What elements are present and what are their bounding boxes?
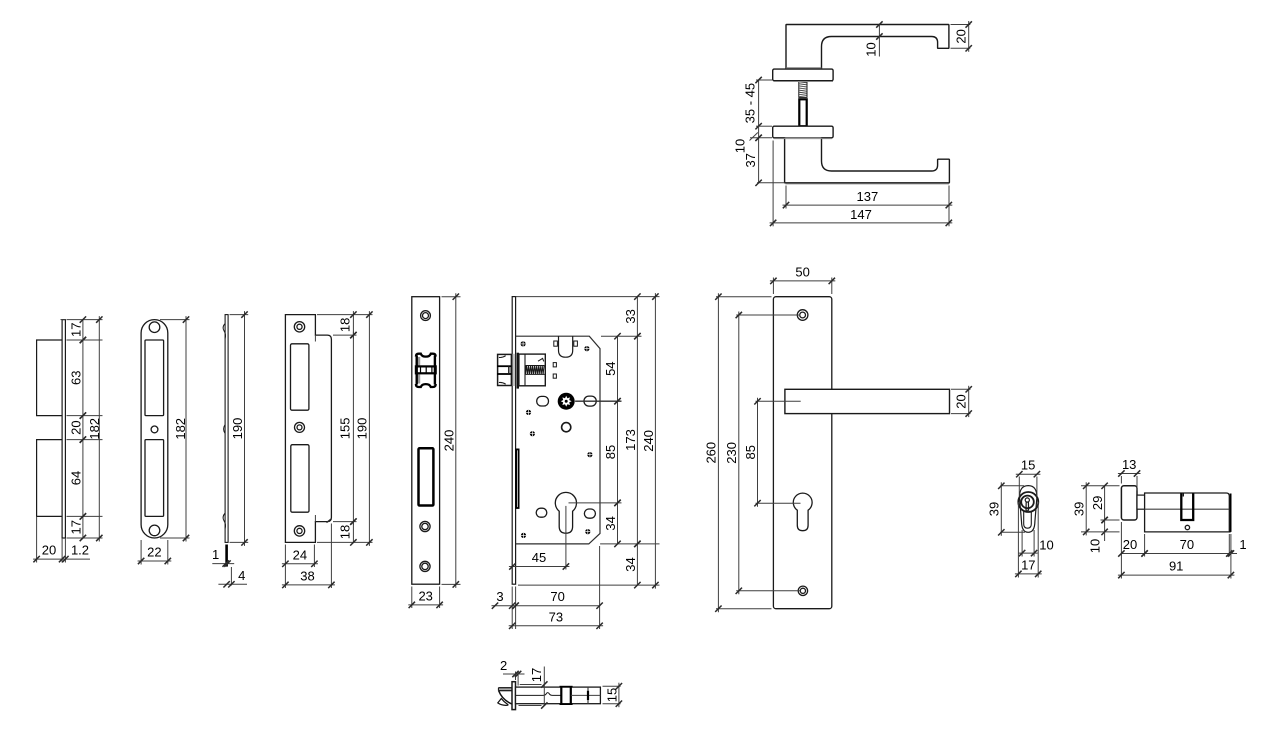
svg-text:260: 260 (703, 442, 718, 464)
svg-text:34: 34 (603, 516, 618, 530)
svg-text:63: 63 (68, 371, 83, 385)
svg-text:20: 20 (954, 394, 969, 408)
svg-text:10: 10 (1088, 539, 1103, 553)
svg-text:20: 20 (954, 29, 969, 43)
svg-text:70: 70 (550, 589, 564, 604)
svg-text:173: 173 (623, 429, 638, 451)
svg-text:50: 50 (795, 264, 809, 279)
svg-text:20: 20 (68, 420, 83, 434)
svg-text:17: 17 (529, 668, 544, 682)
svg-text:18: 18 (338, 318, 353, 332)
svg-text:182: 182 (87, 418, 102, 440)
svg-text:1.2: 1.2 (71, 543, 89, 558)
svg-text:3: 3 (496, 589, 503, 604)
svg-text:35 - 45: 35 - 45 (742, 83, 757, 123)
svg-text:22: 22 (147, 545, 161, 560)
svg-text:34: 34 (623, 557, 638, 571)
svg-text:24: 24 (293, 547, 307, 562)
svg-text:39: 39 (987, 502, 1002, 516)
svg-text:20: 20 (42, 543, 56, 558)
svg-text:155: 155 (338, 418, 353, 440)
svg-text:39: 39 (1071, 502, 1086, 516)
svg-text:15: 15 (1021, 458, 1035, 473)
svg-text:230: 230 (724, 442, 739, 464)
svg-text:85: 85 (743, 445, 758, 459)
svg-text:20: 20 (1123, 537, 1137, 552)
svg-text:240: 240 (441, 430, 456, 452)
svg-text:240: 240 (641, 430, 656, 452)
svg-text:29: 29 (1090, 496, 1105, 510)
svg-text:10: 10 (863, 42, 878, 56)
svg-text:1: 1 (1239, 537, 1246, 552)
svg-text:64: 64 (68, 471, 83, 485)
svg-text:45: 45 (532, 550, 546, 565)
svg-text:73: 73 (549, 609, 563, 624)
svg-text:17: 17 (68, 323, 83, 337)
svg-text:54: 54 (603, 361, 618, 375)
svg-text:10: 10 (733, 139, 748, 153)
svg-text:38: 38 (300, 568, 314, 583)
svg-text:13: 13 (1122, 457, 1136, 472)
svg-text:190: 190 (230, 418, 245, 440)
svg-text:85: 85 (603, 445, 618, 459)
svg-text:182: 182 (173, 418, 188, 440)
svg-text:17: 17 (1021, 557, 1035, 572)
svg-text:70: 70 (1180, 537, 1194, 552)
svg-text:137: 137 (857, 189, 879, 204)
svg-text:33: 33 (623, 309, 638, 323)
svg-text:18: 18 (338, 525, 353, 539)
svg-text:190: 190 (355, 418, 370, 440)
svg-text:23: 23 (418, 588, 432, 603)
svg-text:1: 1 (212, 547, 219, 562)
svg-text:91: 91 (1169, 559, 1183, 574)
svg-text:17: 17 (68, 520, 83, 534)
svg-text:15: 15 (604, 688, 619, 702)
svg-text:10: 10 (1039, 538, 1053, 553)
svg-text:4: 4 (238, 568, 245, 583)
svg-text:37: 37 (743, 153, 758, 167)
svg-text:2: 2 (500, 658, 507, 673)
svg-text:147: 147 (850, 207, 872, 222)
